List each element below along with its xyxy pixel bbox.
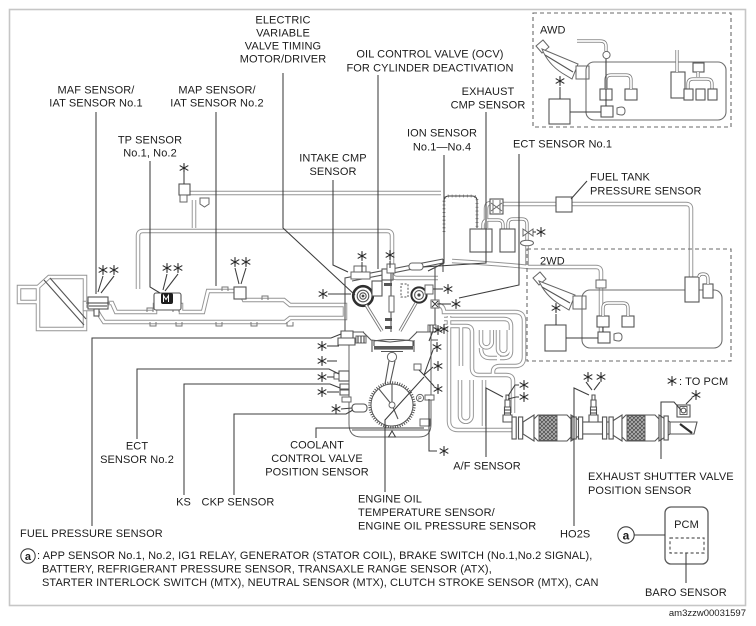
svg-text:SENSOR: SENSOR: [309, 166, 356, 178]
exhaust flange pair 1: [512, 417, 516, 439]
connecting rod: [385, 361, 395, 384]
wire: fuel pressure sensor leader L1: [92, 334, 341, 526]
wire: EVAP hose fitting drop: [192, 200, 197, 228]
star lower head fitting: [440, 324, 449, 334]
AWD right manifold pipes: [677, 50, 712, 89]
wire: serpentine right inner loop: [498, 330, 509, 354]
BARO sensor dashed box: [670, 538, 704, 553]
CKP sensor body: [352, 404, 367, 412]
svg-text:FUEL PRESSURE SENSOR: FUEL PRESSURE SENSOR: [20, 528, 163, 540]
wire: tank vent U-pipe 1: [483, 220, 503, 229]
wire: serpentine center hairpin: [481, 330, 492, 347]
svg-text:CKP SENSOR: CKP SENSOR: [202, 497, 275, 509]
wire: EVAP pipe to fuel tank pressure sensor: [502, 202, 556, 207]
intake cam sprocket housing: [351, 266, 370, 279]
exhaust flange pair 2: [572, 417, 576, 439]
catalytic converter 2 cone out: [659, 415, 670, 441]
star column right 3: [434, 361, 443, 371]
wire: ECT2 leader L2: [137, 369, 339, 439]
svg-text:a: a: [25, 551, 32, 563]
piston ring band: [374, 346, 413, 350]
svg-text:CONTROL VALVE: CONTROL VALVE: [271, 453, 363, 465]
OCV body: [382, 269, 393, 280]
wire: coolant valve leader L5: [316, 428, 424, 438]
star head fitting: [452, 299, 461, 309]
star coil: [358, 251, 367, 261]
AWD pump unit: [601, 106, 613, 117]
svg-text:PRESSURE SENSOR: PRESSURE SENSOR: [590, 186, 702, 198]
ION sensor (dashed): [401, 284, 408, 297]
star OCV: [386, 250, 395, 260]
svg-text:IAT SENSOR No.2: IAT SENSOR No.2: [170, 98, 263, 110]
wire: pipe into 2WD box: [452, 261, 601, 283]
svg-text:VALVE TIMING: VALVE TIMING: [245, 41, 321, 53]
fuel vapor hatched line: [444, 196, 477, 232]
svg-text:TEMPERATURE SENSOR/: TEMPERATURE SENSOR/: [358, 507, 496, 519]
intake duct silhouette: [85, 291, 345, 322]
engine oil temperature sensor: [414, 364, 421, 370]
2WD right module small: [703, 284, 713, 298]
AWD right small boxes: [684, 89, 693, 100]
engine oil pressure sensor: [416, 394, 423, 401]
star CKP: [332, 404, 341, 414]
star column right 2: [433, 342, 442, 352]
wire: exhaust CMP leader: [423, 112, 486, 267]
svg-text:INTAKE CMP: INTAKE CMP: [299, 153, 366, 165]
wire: serpentine inner vertical: [459, 326, 464, 366]
BARO leader: [685, 553, 687, 583]
star bottom crank: [440, 446, 449, 456]
svg-text:ION SENSOR: ION SENSOR: [407, 128, 477, 140]
wire: ECT1 leader: [459, 154, 519, 298]
2WD right module tall: [685, 277, 699, 302]
2WD elbow fitting: [596, 280, 606, 288]
svg-text:No.1, No.2: No.1, No.2: [123, 148, 177, 160]
wire: TP leader: [150, 161, 160, 293]
AWD engine outline: [586, 62, 726, 120]
wire: purge hose lower (y=231): [138, 231, 438, 289]
oil drain triangle: [389, 431, 396, 437]
star intake CMP: [319, 289, 328, 299]
svg-text:No.1—No.4: No.1—No.4: [413, 142, 471, 154]
air cleaner snout: [19, 287, 38, 302]
wire: fuel tank pressure sensor leader: [571, 181, 587, 199]
wire: serpentine lower drop: [482, 380, 487, 426]
svg-text:a: a: [623, 529, 630, 543]
svg-text:ECT SENSOR No.1: ECT SENSOR No.1: [513, 139, 612, 151]
duct clip bumps: [147, 287, 293, 326]
coolant fitting: [342, 397, 351, 402]
star pair MAP: [231, 257, 240, 267]
star column right 1: [434, 325, 443, 335]
svg-text:IAT SENSOR No.1: IAT SENSOR No.1: [49, 98, 142, 110]
star exhaust CMP: [444, 284, 453, 294]
star pair MAF: [99, 265, 108, 275]
exhaust CMP sensor body: [409, 263, 423, 270]
catalytic converter 1 body: [534, 415, 571, 441]
exhaust valve: [400, 303, 416, 331]
purge solenoid valve: [490, 199, 503, 214]
wire: serpentine arc 2: [444, 319, 511, 358]
svg-text:COOLANT: COOLANT: [290, 440, 344, 452]
wire: OCV leader: [377, 75, 379, 269]
2WD valve connecting pipe: [603, 303, 628, 316]
exhaust tail pipe: [668, 422, 697, 434]
svg-text:ENGINE OIL PRESSURE SENSOR: ENGINE OIL PRESSURE SENSOR: [358, 521, 536, 533]
svg-text:2WD: 2WD: [540, 256, 565, 268]
AWD right module small top: [693, 63, 704, 72]
coolant control valve body: [420, 419, 430, 426]
svg-text:BATTERY, REFRIGERANT PRESSURE: BATTERY, REFRIGERANT PRESSURE SENSOR, TR…: [42, 564, 492, 576]
AWD right module tall: [671, 72, 685, 98]
catalytic converter 1 cone in: [523, 415, 534, 441]
wire: MAF leader: [95, 112, 97, 294]
star column right 4: [434, 384, 443, 394]
wire: KS leader L3: [184, 384, 340, 495]
svg-text:A/F SENSOR: A/F SENSOR: [453, 461, 521, 473]
wire: tank vent U-pipe 2: [508, 219, 527, 266]
exhaust pipe segment 1: [580, 422, 615, 434]
star column left 4: [318, 387, 327, 397]
intake cam sprocket (e-VVT): [353, 286, 373, 306]
svg-text:CMP SENSOR: CMP SENSOR: [451, 100, 526, 112]
2WD purge valve boxes: [597, 316, 609, 327]
wire: EVAP pipe sensor to canister drop: [572, 204, 691, 277]
svg-text:ENGINE OIL: ENGINE OIL: [358, 494, 422, 506]
svg-text:: TO PCM: : TO PCM: [679, 376, 728, 388]
svg-text:: APP SENSOR No.1, No.2, IG1 R: : APP SENSOR No.1, No.2, IG1 RELAY, GENE…: [37, 550, 592, 562]
piston pin: [387, 352, 396, 361]
EVAP canister tank 2: [500, 229, 515, 252]
AWD inlet pipe: [577, 41, 606, 51]
2WD fuel tank outline: [582, 290, 722, 348]
combustion chamber roof: [363, 332, 417, 352]
wire: serpentine left tall run and bottom exit: [449, 316, 516, 430]
AWD canister: [549, 99, 570, 124]
star column left 1: [318, 341, 327, 351]
svg-text:TP SENSOR: TP SENSOR: [118, 135, 182, 147]
intake valve: [366, 305, 382, 331]
svg-text:ECT: ECT: [126, 441, 148, 453]
2WD dashed frame: [527, 249, 731, 361]
star pair HO2S: [584, 372, 593, 382]
wire: e-VVT leader: [283, 73, 355, 295]
star purge fitting: [180, 163, 189, 173]
wire: intake CMP leader: [333, 180, 348, 272]
2WD pump unit: [598, 332, 610, 343]
throttle body: [154, 293, 181, 310]
crankshaft toothed wheel: [371, 384, 413, 426]
star column left 3: [318, 372, 327, 382]
wire: hose to purge valve: [486, 203, 491, 228]
knock sensor body: [340, 384, 349, 395]
ignition coil: [372, 281, 382, 296]
catalytic converter 2 body: [622, 415, 659, 441]
wire: serpentine s-bend: [481, 348, 497, 358]
svg-text:SENSOR No.2: SENSOR No.2: [100, 454, 174, 466]
svg-text:am3zzw00031597: am3zzw00031597: [669, 608, 746, 619]
svg-text:OIL CONTROL VALVE (OCV): OIL CONTROL VALVE (OCV): [356, 49, 503, 61]
fuel rail / high pressure pump: [338, 331, 355, 345]
air cleaner element diagonal: [44, 278, 86, 325]
star shutter valve: [692, 390, 701, 400]
svg-text:MOTOR/DRIVER: MOTOR/DRIVER: [240, 54, 327, 66]
svg-text:POSITION SENSOR: POSITION SENSOR: [588, 485, 692, 497]
star pair TP: [163, 263, 172, 273]
svg-text:POSITION SENSOR: POSITION SENSOR: [265, 467, 369, 479]
head side fitting lower: [428, 325, 436, 332]
wire: CKP leader L4: [234, 410, 353, 495]
AWD valve connecting pipe: [606, 75, 631, 89]
check valve: [523, 229, 533, 236]
svg-text:VARIABLE: VARIABLE: [256, 28, 310, 40]
head side fitting upper: [431, 300, 439, 308]
EVAP canister tank 1: [470, 229, 492, 252]
HO2S sensor: [589, 395, 598, 422]
wire: serpentine entry and outer ring: [433, 304, 524, 376]
wire: EVAP hose upper (y=192): [189, 191, 441, 196]
wire: MAP leader: [215, 112, 217, 286]
AWD intake horn: [536, 40, 549, 53]
svg-text:STARTER INTERLOCK SWITCH (MTX): STARTER INTERLOCK SWITCH (MTX), NEUTRAL …: [42, 577, 599, 589]
wire: engine oil sensors leader: [385, 377, 424, 492]
wire: right star tree: [419, 331, 434, 386]
AWD dashed frame: [533, 13, 731, 127]
exhaust flange pair 4: [664, 416, 668, 440]
svg-text:FUEL TANK: FUEL TANK: [590, 172, 651, 184]
wire: A/F sensor leader: [486, 388, 503, 457]
catalytic converter 2 cone in: [611, 415, 622, 441]
circle a node: [618, 527, 634, 543]
star column left 2: [318, 356, 327, 366]
valve cover wedge: [345, 259, 443, 334]
air cleaner box: [38, 277, 85, 329]
wire: serpentine lower zigzag: [460, 380, 472, 422]
A/F sensor: [503, 395, 512, 422]
ECT sensor No.2 body: [339, 371, 349, 381]
AWD canister star: [556, 76, 565, 86]
wire: bottom star L: [429, 399, 437, 451]
exhaust flange pair 3: [603, 417, 607, 439]
svg-text:PCM: PCM: [674, 519, 699, 531]
purge fitting at intake: [179, 184, 190, 195]
2WD right connecting pipe: [699, 274, 708, 284]
wire: 2WD tank feed pipe: [599, 287, 604, 337]
exhaust shutter valve actuator: [677, 405, 690, 417]
PCM box: [665, 507, 708, 564]
MAP sensor body: [234, 287, 246, 299]
vent oval: [521, 240, 534, 246]
wire: shutter valve leader: [661, 402, 681, 459]
MAF sensor body: [88, 297, 108, 309]
exhaust cam sprocket: [411, 287, 426, 302]
engine block / oil pan outline: [349, 332, 431, 437]
2WD canister: [545, 325, 566, 351]
spark plug: [390, 268, 392, 332]
wire: serpentine arc 3 with drop: [444, 326, 513, 413]
svg-text:BARO SENSOR: BARO SENSOR: [645, 587, 727, 599]
svg-text:FOR CYLINDER DEACTIVATION: FOR CYLINDER DEACTIVATION: [346, 63, 513, 75]
circle a to PCM wire: [635, 534, 666, 536]
star check valve: [537, 227, 546, 237]
svg-text:ELECTRIC: ELECTRIC: [255, 15, 310, 27]
wire: ION leader: [428, 155, 444, 271]
circle a legend: [21, 549, 35, 563]
TP sensor motor (black): [161, 293, 173, 304]
svg-text:EXHAUST: EXHAUST: [462, 86, 515, 98]
catalytic converter 1 cone out: [571, 415, 582, 441]
svg-text:EXHAUST SHUTTER VALVE: EXHAUST SHUTTER VALVE: [588, 471, 734, 483]
AWD purge valve boxes: [600, 89, 612, 100]
2WD canister star: [552, 303, 561, 313]
svg-text:KS: KS: [176, 497, 191, 509]
hose clip: [200, 198, 209, 207]
svg-text:HO2S: HO2S: [560, 529, 590, 541]
2WD intake horn: [533, 272, 546, 285]
svg-text:AWD: AWD: [540, 25, 566, 37]
piston crown: [374, 340, 413, 347]
wire: HO2S leader: [574, 388, 589, 526]
star pair A/F: [520, 380, 529, 390]
fuel tank pressure sensor body: [556, 197, 572, 212]
shutter valve flap: [680, 424, 692, 433]
svg-text:MAP SENSOR/: MAP SENSOR/: [178, 85, 256, 97]
svg-text:MAF SENSOR/: MAF SENSOR/: [58, 85, 136, 97]
